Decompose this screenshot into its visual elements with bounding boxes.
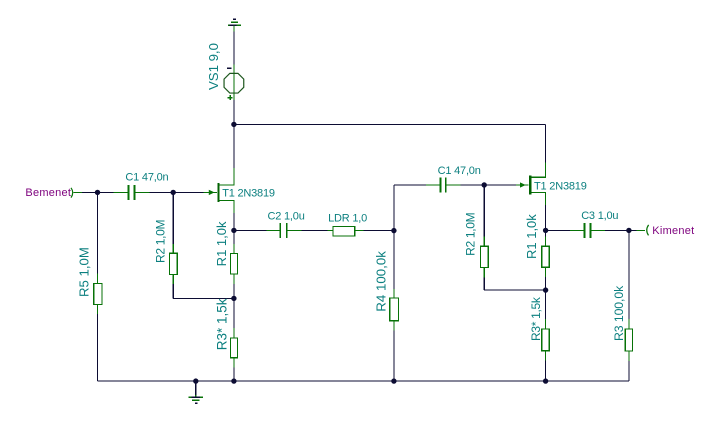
svg-text:C1 47,0n: C1 47,0n <box>438 165 481 177</box>
svg-text:R2 1,0M: R2 1,0M <box>154 219 168 263</box>
svg-text:R2 1,0M: R2 1,0M <box>464 212 478 256</box>
node R4 bottom junction <box>391 378 396 383</box>
node top-rail junction <box>231 122 236 127</box>
wire (source left down) <box>233 213 235 230</box>
ground (bottom) <box>189 381 203 403</box>
node gate junction left <box>171 190 176 195</box>
svg-text:R1 1,0k: R1 1,0k <box>524 214 539 259</box>
node R3 left bottom junction <box>231 378 236 383</box>
svg-text:C3 1,0u: C3 1,0u <box>581 210 618 222</box>
node source junction left <box>231 228 236 233</box>
svg-text:C1 47,0n: C1 47,0n <box>125 171 168 183</box>
wire (LDR to R4 node) <box>363 229 394 231</box>
capacitor C2 1,0u <box>267 223 302 238</box>
svg-text:R3 100,0k: R3 100,0k <box>612 285 626 341</box>
wire (source right to C3) <box>546 229 571 231</box>
svg-text:R3* 1,5k: R3* 1,5k <box>529 296 543 341</box>
transistor T1 (right, 2N3819) <box>516 162 546 205</box>
wire top rail <box>234 123 546 125</box>
node ground junction <box>193 378 198 383</box>
svg-text:C2 1,0u: C2 1,0u <box>268 210 305 222</box>
svg-text:R5 1,0M: R5 1,0M <box>77 247 92 297</box>
transistor T1 (left, 2N3819) <box>204 168 235 213</box>
wire (source right down) <box>545 205 547 230</box>
node input junction <box>95 190 100 195</box>
resistor R3* 1,5k (right) <box>542 290 549 381</box>
resistor LDR 1,0 <box>327 227 363 237</box>
svg-text:R4 100,0k: R4 100,0k <box>373 251 388 312</box>
svg-text:VS1 9,0: VS1 9,0 <box>206 43 221 90</box>
wire (VS1 to top rail) <box>233 100 235 124</box>
svg-text:Bemenet: Bemenet <box>25 187 71 199</box>
node R3* right bottom junction <box>543 378 548 383</box>
resistor R2 1,0M (right) <box>481 185 489 290</box>
capacitor C1 (right) <box>426 178 461 193</box>
resistor R2 1,0M (left) <box>169 192 177 298</box>
wire (source to C2) <box>234 229 267 231</box>
wire (drain left to rail) <box>233 124 235 168</box>
wire (Bemenet to node) <box>82 191 114 193</box>
node Bemenet terminal <box>25 187 82 199</box>
svg-text:T1 2N3819: T1 2N3819 <box>534 180 587 192</box>
node source junction right <box>543 228 548 233</box>
node Kimenet terminal <box>629 225 695 237</box>
svg-text:R3* 1,5k: R3* 1,5k <box>214 298 229 350</box>
resistor R1 1,0k (right) <box>542 230 549 290</box>
voltage source VS1 <box>224 64 244 100</box>
svg-text:Kimenet: Kimenet <box>652 225 694 237</box>
resistor R3* 1,5k (left) <box>230 298 237 381</box>
node divider junction right <box>543 287 548 292</box>
svg-text:T1 2N3819: T1 2N3819 <box>222 188 275 200</box>
node divider junction left <box>231 296 236 301</box>
wire (C3 to output node) <box>605 229 629 231</box>
wire bottom rail <box>98 380 629 382</box>
wire (gate wire stage 2) <box>394 184 426 186</box>
wire (R2 right bottom to divider node) <box>484 289 545 291</box>
wire (R2 bottom to divider node) <box>173 297 234 299</box>
resistor R5 1,0M <box>94 192 102 381</box>
node LDR/R4 junction <box>391 228 396 233</box>
svg-text:R1 1,0k: R1 1,0k <box>214 221 229 266</box>
wire (C1 right to gate node) <box>461 184 517 186</box>
ground (top, inverted, at VS1 minus) <box>228 19 241 31</box>
resistor R3 100,0k <box>625 230 632 381</box>
resistor R1 1,0k (left) <box>230 230 237 298</box>
node gate junction right <box>482 182 487 187</box>
wire (rail corner down to drain right) <box>545 124 547 162</box>
resistor R4 100,0k <box>390 289 399 381</box>
capacitor C3 1,0u <box>570 223 605 238</box>
svg-text:LDR 1,0: LDR 1,0 <box>328 212 367 224</box>
node output junction <box>626 228 631 233</box>
wire (top ground to VS1) <box>233 32 235 65</box>
wire (C1 to R2 node) <box>150 191 208 193</box>
wire (R4 column top, bends right at gate level) <box>393 185 395 289</box>
capacitor C1 (left) <box>114 185 150 200</box>
wire (C2 to LDR) <box>302 229 328 231</box>
